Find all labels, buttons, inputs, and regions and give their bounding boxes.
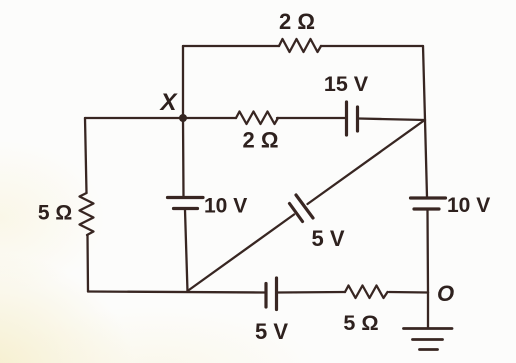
svg-text:2 Ω: 2 Ω	[243, 128, 279, 153]
wire inner vertical upper (X to 10V)	[182, 118, 185, 196]
wire inner vertical lower	[185, 210, 188, 292]
battery 5V diagonal plates	[290, 204, 303, 222]
battery 10V right plates	[411, 196, 446, 199]
svg-text:5 Ω: 5 Ω	[343, 311, 378, 335]
wire ground stem	[427, 293, 429, 329]
battery 15V plates	[345, 102, 348, 135]
svg-text:O: O	[437, 281, 454, 306]
wire bottom middle segment	[278, 291, 346, 294]
wire diagonal lower segment	[188, 215, 295, 292]
wire bottom left segment	[88, 292, 265, 293]
svg-text:X: X	[158, 89, 178, 116]
node X dot	[179, 114, 187, 122]
svg-text:2 Ω: 2 Ω	[279, 9, 315, 34]
ground symbol	[404, 327, 453, 330]
svg-text:10 V: 10 V	[447, 194, 490, 217]
wire left rail upper	[85, 118, 87, 193]
wire top horizontal left segment	[183, 45, 279, 47]
resistor R top 2ohm	[279, 39, 321, 52]
wire right vertical lower	[426, 211, 429, 293]
battery 10V inner plates	[168, 196, 204, 199]
svg-text:5 V: 5 V	[311, 226, 344, 251]
resistor left 5ohm vertical	[80, 193, 94, 235]
wire bottom right segment	[389, 291, 428, 294]
wire right vertical upper	[423, 46, 425, 120]
wire 15V battery to right node	[359, 119, 426, 121]
wire top horizontal right segment	[321, 45, 423, 47]
svg-text:15 V: 15 V	[324, 72, 369, 96]
battery 5V bottom plates	[264, 284, 267, 308]
wire left rail lower	[86, 235, 89, 292]
svg-text:5 V: 5 V	[255, 319, 288, 344]
svg-text:10 V: 10 V	[204, 195, 247, 218]
resistor bottom 5ohm	[345, 286, 388, 299]
wire right vertical middle	[425, 120, 427, 197]
wire middle horizontal from left rail to resistor	[85, 117, 236, 119]
wire middle to 15V battery	[277, 117, 345, 119]
svg-text:5 Ω: 5 Ω	[38, 202, 72, 225]
wire top-left vertical (X to top rect)	[182, 46, 184, 118]
wire diagonal upper segment	[308, 121, 425, 205]
resistor middle 2ohm	[236, 112, 278, 125]
